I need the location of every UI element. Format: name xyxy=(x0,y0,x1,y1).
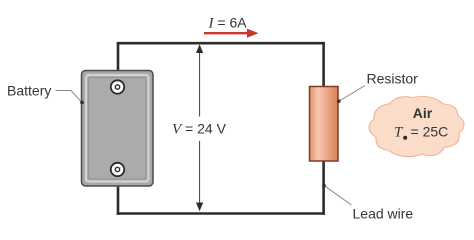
battery body xyxy=(82,71,154,187)
lead wire label pointer xyxy=(322,184,351,205)
wire: battery negative terminal down to bottom rail xyxy=(117,168,120,215)
svg-text:Lead wire: Lead wire xyxy=(353,206,414,222)
wire: battery positive terminal up to top rail xyxy=(117,43,120,88)
svg-text:= 25C: = 25C xyxy=(411,124,449,140)
wire: resistor bottom down to bottom rail xyxy=(322,160,325,215)
svg-text:Air: Air xyxy=(413,105,433,121)
battery label pointer xyxy=(56,91,84,105)
wire: top rail xyxy=(117,42,325,45)
wire: bottom rail xyxy=(117,212,325,215)
battery positive terminal xyxy=(111,80,124,93)
resistor body xyxy=(310,87,339,162)
resistor label pointer xyxy=(337,86,365,103)
svg-text:Resistor: Resistor xyxy=(367,71,419,87)
svg-text:V = 24 V: V = 24 V xyxy=(172,121,227,138)
svg-text:I = 6A: I = 6A xyxy=(208,15,248,32)
battery negative terminal xyxy=(111,163,124,176)
air cloud blob xyxy=(369,96,464,156)
wire: right rail down to resistor top xyxy=(322,42,325,88)
label T-infinity = 25C xyxy=(394,124,448,141)
voltage measurement line (double arrow) xyxy=(196,44,203,211)
current arrow (red) xyxy=(204,29,259,38)
svg-text:Battery: Battery xyxy=(7,83,51,99)
